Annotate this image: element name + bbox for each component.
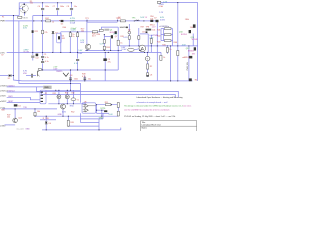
wire v-x80 low [79, 113, 81, 122]
wire v-x172 [172, 29, 174, 46]
svg-text:VCON: VCON [23, 51, 29, 53]
resistor R29 [99, 29, 103, 31]
crystal Y1 [71, 98, 76, 101]
svg-text:100n: 100n [45, 6, 49, 8]
titleblock border [141, 121, 197, 132]
wire main horizontal bus [5, 20, 157, 22]
capacitor C10 [41, 61, 44, 64]
svg-text:10u: 10u [88, 79, 91, 81]
wire second bus segment [33, 15, 72, 17]
wire v-cap70 [70, 70, 72, 90]
svg-text:10k: 10k [37, 111, 40, 113]
testpoint tick TP1 [86, 19, 88, 21]
resistor R42 [164, 34, 171, 36]
svg-text:4.7u: 4.7u [74, 63, 78, 65]
svg-text:VBUS: VBUS [23, 17, 29, 19]
svg-text:10k: 10k [81, 31, 84, 33]
wire oval link [134, 49, 139, 50]
diode D1 left [8, 74, 11, 77]
wire v-x77 [77, 32, 79, 70]
svg-text:R4: R4 [195, 79, 197, 81]
wire right mid stub [140, 33, 148, 35]
gray box ref [104, 29, 109, 31]
wire left input line [0, 15, 19, 17]
wire long right rail [120, 45, 198, 47]
wire v-x35 [34, 109, 36, 116]
svg-text:SWDIO: SWDIO [8, 85, 15, 87]
wire r4x left rail [160, 29, 162, 41]
wire v-x68 [67, 116, 69, 120]
resistor R33b [103, 46, 105, 50]
svg-text:NRST: NRST [8, 101, 14, 103]
ferrite bead FB1 [18, 16, 22, 18]
svg-text:Labradoard Rev5 funct: Labradoard Rev5 funct [142, 124, 162, 127]
svg-text:C8: C8 [67, 6, 69, 8]
capacitor C18 [69, 77, 72, 80]
svg-text:▸NRST: ▸NRST [0, 100, 7, 103]
connector J3 [40, 90, 46, 104]
svg-text:TP5: TP5 [132, 17, 135, 19]
svg-text:PWR: PWR [0, 21, 5, 23]
svg-text:431: 431 [62, 38, 65, 40]
diode D5 on bus [61, 20, 64, 22]
svg-text:R51: R51 [105, 102, 108, 104]
svg-text:10u: 10u [74, 6, 77, 8]
svg-text:F1: F1 [2, 16, 4, 18]
capacitor C7 [56, 8, 59, 11]
wire v-x70 [69, 32, 71, 53]
wire top-right bus [159, 3, 198, 81]
resistor R23 [42, 30, 44, 34]
wire v-x138 [138, 28, 140, 46]
svg-text:R44: R44 [174, 42, 177, 44]
diode D4b [45, 121, 48, 124]
svg-text:1k: 1k [52, 22, 54, 24]
svg-text:R37: R37 [141, 27, 144, 29]
wire v-osc [72, 90, 74, 104]
svg-text:Y1: Y1 [77, 99, 79, 101]
wire txd stub [40, 119, 56, 121]
wire q15 emitter [62, 109, 64, 116]
svg-text:R43: R43 [157, 41, 160, 43]
capacitor C19 [84, 77, 87, 80]
resistor R1 on bus [120, 20, 125, 22]
svg-text:R30: R30 [97, 34, 100, 36]
transistor Q15 [61, 104, 66, 109]
wire v-x97 [96, 105, 98, 114]
wire v-x188 [188, 46, 190, 81]
wire v-meter chain [147, 52, 149, 77]
svg-text:▸SWO: ▸SWO [0, 95, 6, 98]
transistor Q6 [85, 44, 90, 49]
testpoint tick TP2 [117, 19, 119, 21]
wire v-x104 [103, 34, 105, 50]
resistor R39 [147, 64, 149, 69]
capacitor C13 h [30, 74, 35, 78]
wire sig row1 step [35, 87, 37, 92]
svg-text:R46: R46 [1, 110, 4, 112]
wire q15 top [62, 103, 64, 105]
wire r42 leads [161, 34, 164, 36]
wire v-x110 [110, 38, 112, 50]
svg-text:0.65V: 0.65V [160, 20, 166, 22]
resistor R21 blob [32, 30, 34, 33]
svg-text:BSS84: BSS84 [188, 50, 194, 52]
wire v-x105 [104, 52, 106, 81]
svg-text:D2: D2 [18, 105, 20, 107]
svg-text:4.7u: 4.7u [45, 57, 49, 59]
diode D3 [52, 31, 55, 34]
svg-text:2k2: 2k2 [7, 117, 10, 119]
capacitor C9 [41, 56, 44, 59]
svg-text:VDD: VDD [23, 73, 28, 75]
svg-text:SWCLK: SWCLK [8, 91, 15, 93]
wire v-x151b [150, 46, 152, 53]
wire sig row3 [7, 97, 40, 100]
wire sig row2 [7, 92, 42, 95]
resistor R31 [117, 40, 119, 45]
wire lower bus [38, 69, 118, 71]
capacitor C8 [70, 8, 73, 11]
wire v-x103 [102, 113, 104, 119]
svg-text:17:05:41 on Sunday, 12 July 20: 17:05:41 on Sunday, 12 July 2020 — sheet… [124, 115, 175, 118]
svg-text:Q14: Q14 [18, 118, 22, 120]
wire rv1 stub [160, 52, 162, 55]
fuse F3 [157, 1, 160, 3]
wire q1 emitter [24, 13, 26, 16]
resistor RV3 [177, 51, 179, 56]
wire r43 leads [161, 40, 164, 42]
transistor Q14 [13, 118, 18, 123]
svg-text:C12: C12 [35, 57, 38, 59]
net tap blk [126, 27, 128, 29]
resistor R38 [150, 39, 152, 44]
svg-text:R42: R42 [157, 35, 160, 37]
svg-text:RXD: RXD [70, 106, 75, 108]
wire long low bus [14, 16, 193, 81]
resistor R43 [164, 40, 171, 42]
resistor RV2 [166, 48, 168, 53]
svg-text:180k: 180k [185, 19, 189, 21]
transistor QR [193, 24, 196, 27]
svg-text:1k: 1k [72, 36, 74, 38]
capacitor C on x77 [76, 59, 79, 62]
svg-text:▸SWDIO: ▸SWDIO [0, 84, 8, 87]
wire v-x170 [170, 46, 172, 81]
wire v-cap84 [84, 76, 86, 81]
svg-text:61.9: 61.9 [92, 36, 96, 38]
svg-text:1k: 1k [169, 49, 171, 51]
resistor R28 [92, 31, 97, 33]
op-amp U6 box [82, 103, 96, 113]
capacitor C12 [31, 55, 34, 58]
svg-text:TP8: TP8 [146, 27, 149, 29]
wire v-x101 [101, 110, 103, 116]
wire v-x148 [147, 34, 149, 53]
svg-text:47u: 47u [108, 62, 111, 64]
transistor Q8 pair [63, 72, 69, 76]
resistor R54 [117, 111, 119, 116]
svg-text:Notes:: Notes: [142, 127, 148, 130]
wire v-x99b [98, 119, 100, 130]
svg-text:C9: C9 [44, 54, 46, 56]
resistor R35 [128, 36, 130, 39]
wire v-x118 mid [117, 27, 119, 70]
svg-text:10k: 10k [190, 27, 193, 29]
resistor RB2 [67, 120, 69, 126]
wire nested c [68, 125, 99, 127]
svg-text:SWO: SWO [8, 96, 13, 98]
wire q1 base [19, 8, 23, 10]
svg-text:12.0V: 12.0V [121, 49, 127, 51]
wire sig row4 [7, 102, 40, 104]
wire v-x129 [128, 26, 130, 46]
wire v-x120 corner [120, 128, 122, 130]
resistor R41 [164, 28, 171, 30]
resistor R33a [103, 40, 105, 44]
svg-text:R2: R2 [150, 66, 152, 68]
svg-text:J3: J3 [45, 93, 47, 95]
svg-text:0.00V: 0.00V [71, 30, 77, 32]
svg-text:10k: 10k [152, 29, 155, 31]
svg-text:see notes: see notes [183, 104, 191, 107]
wire v-x151 [150, 35, 152, 46]
svg-text:GND: GND [99, 117, 104, 119]
wire v-x33 [32, 16, 34, 53]
svg-text:R52: R52 [71, 111, 74, 113]
svg-text:U6: U6 [84, 101, 86, 103]
svg-text:D4: D4 [49, 123, 51, 125]
resistor R36 [138, 36, 140, 39]
svg-text:▸GND: ▸GND [0, 124, 6, 127]
svg-text:R1: R1 [119, 18, 121, 20]
transistor Q3 [36, 71, 40, 77]
resistor R55 on bus4 [38, 69, 41, 71]
diode D10 [104, 110, 107, 112]
wire top-left bus VCC [19, 3, 71, 16]
gray box SWD [43, 86, 51, 89]
resistor RV1 [160, 55, 162, 60]
wire v-c2 [57, 3, 59, 16]
led DS2 [57, 95, 61, 99]
junction pair [139, 50, 140, 51]
diode DT [189, 56, 192, 59]
svg-text:BC856: BC856 [181, 34, 187, 36]
wire long mid bus [7, 51, 161, 53]
svg-text:R32: R32 [65, 93, 68, 95]
junction c9c10 [42, 59, 43, 60]
svg-text:Q8: Q8 [70, 75, 73, 77]
svg-text:27k: 27k [44, 32, 47, 34]
wire v-x53 [52, 31, 54, 52]
svg-text:100n: 100n [60, 6, 64, 8]
svg-text:0.1u: 0.1u [45, 61, 49, 63]
wire nested b [80, 118, 103, 120]
wire r41 leads [161, 28, 164, 30]
wire diode row [97, 109, 105, 111]
wire q1 collector [23, 3, 25, 4]
wire v-x42 mid [42, 16, 44, 70]
wire second low bus [19, 21, 81, 103]
inductor L1 on bus [46, 20, 51, 22]
svg-text:330: 330 [71, 92, 74, 94]
svg-text:This design is released under: This design is released under the CERN O… [124, 104, 183, 107]
svg-text:FB2: FB2 [45, 18, 48, 20]
wire v-x46 [45, 116, 47, 130]
fuse F2 oval [128, 48, 135, 51]
dark box [146, 29, 152, 31]
svg-text:D5: D5 [61, 24, 63, 26]
transistor Q7 [111, 35, 113, 38]
svg-text:GND: GND [58, 114, 63, 116]
wire v-x87 [86, 21, 88, 51]
wire mid short [104, 36, 110, 38]
svg-text:1PPS: 1PPS [100, 108, 106, 110]
svg-text:Q7: Q7 [115, 36, 118, 38]
wire mid low rail [85, 49, 122, 51]
wire paired line [87, 21, 118, 23]
transistor Q5 [115, 31, 117, 34]
junction x108 [108, 52, 109, 53]
svg-text:4.7k: 4.7k [82, 76, 86, 78]
wire bottom rail2 [35, 115, 118, 117]
capacitor C6 [41, 8, 44, 11]
led DS1 marks [128, 29, 130, 31]
svg-text:R33: R33 [106, 47, 109, 49]
wire v-x32 stub [32, 52, 34, 60]
svg-text:C6: C6 [38, 6, 40, 8]
wire v-x129 ext [128, 24, 130, 26]
wire v-led1 [58, 90, 60, 104]
svg-text:10k: 10k [30, 3, 33, 5]
svg-text:R49: R49 [70, 122, 73, 124]
svg-text:GND: GND [25, 129, 30, 131]
wire v-x118b [117, 102, 119, 115]
inductor L2 arcs [136, 19, 140, 22]
svg-text:D7: D7 [154, 17, 156, 19]
svg-text:REF25: REF25 [56, 71, 62, 73]
resistor RB1 [34, 112, 36, 115]
transistor QT [194, 47, 196, 50]
svg-text:see the LICENSE file included: see the LICENSE file included for all te… [124, 108, 169, 111]
svg-text:1k: 1k [120, 42, 122, 44]
resistor R5 [69, 33, 71, 37]
svg-text:TP1: TP1 [85, 18, 88, 20]
wire v-x177 [177, 3, 179, 81]
wire v-led2 [66, 90, 68, 104]
svg-text:1k: 1k [163, 57, 165, 59]
svg-text:10k: 10k [150, 19, 153, 21]
wire v-r-top [71, 3, 73, 16]
diode D2 blk [14, 104, 18, 106]
svg-text:C15: C15 [142, 31, 145, 33]
wire led feed [46, 89, 80, 91]
wire v-x163 [163, 29, 165, 41]
resistor R6 [77, 33, 79, 37]
wire bottom rail3 [42, 129, 121, 131]
svg-text:100n: 100n [74, 79, 78, 81]
capacitor C5 [103, 58, 106, 61]
svg-text:Labradoard Open Hardware — Hea: Labradoard Open Hardware — Heating and M… [136, 96, 182, 99]
svg-text:schematics at example.board —: schematics at example.board — rev2 [136, 101, 167, 104]
wire long row2 [42, 95, 176, 98]
wire gnd left [5, 124, 16, 126]
wire mid rail [61, 31, 100, 33]
svg-text:SW: SW [192, 54, 195, 56]
wire left stub [0, 75, 14, 77]
wire v-x15 [14, 109, 16, 123]
transistor Q10 [189, 30, 191, 33]
transistor Q1 [20, 4, 28, 12]
wire v-c1 [42, 3, 44, 16]
wire swd line [7, 86, 44, 88]
svg-text:R21: R21 [35, 31, 38, 33]
svg-text:C7: C7 [53, 6, 55, 8]
wire rv2 stub [166, 46, 168, 48]
svg-text:D1: D1 [8, 78, 10, 80]
svg-text:PWR_SW: PWR_SW [187, 62, 189, 70]
svg-text:no_conn: no_conn [17, 128, 24, 130]
svg-text:BC846: BC846 [192, 39, 198, 41]
wire opamp out [97, 104, 119, 106]
svg-text:mBR120: mBR120 [182, 57, 189, 59]
resistor R53 [117, 103, 119, 108]
wire v-x61 [60, 32, 62, 53]
wire led bottom rail [48, 103, 86, 105]
ammeter M1 [139, 45, 146, 52]
wire short row [97, 112, 110, 114]
voltmeter M2 [145, 56, 150, 61]
resistor R51 [105, 104, 111, 106]
wire upper mid link [102, 27, 119, 29]
svg-text:R45: R45 [162, 45, 165, 47]
capacitor C16 [147, 73, 149, 77]
svg-text:SWD: SWD [44, 87, 49, 89]
ic U4 box [57, 33, 62, 43]
svg-text:0.1%: 0.1% [123, 37, 128, 39]
svg-text:R31: R31 [53, 93, 56, 95]
diode D6 [156, 20, 159, 22]
wire long row1 [36, 91, 178, 97]
wire nested a [80, 121, 99, 123]
led DS3 [65, 95, 69, 99]
svg-text:0.51A: 0.51A [70, 21, 76, 24]
diode D7 on bus [150, 20, 153, 22]
svg-text:C8: C8 [150, 74, 152, 76]
svg-text:R40: R40 [63, 27, 66, 29]
cap blk mid [146, 31, 148, 33]
svg-text:R41: R41 [157, 29, 160, 31]
svg-text:TXD: TXD [23, 107, 27, 109]
transistor circle mid [128, 31, 131, 34]
svg-text:R_TXD: R_TXD [43, 118, 50, 120]
transistor QB [189, 78, 192, 81]
junction dots [42, 2, 43, 3]
wire bottom mid1 [2, 108, 57, 110]
wire v-x157 [156, 21, 158, 81]
wire v-x193 [192, 34, 194, 46]
